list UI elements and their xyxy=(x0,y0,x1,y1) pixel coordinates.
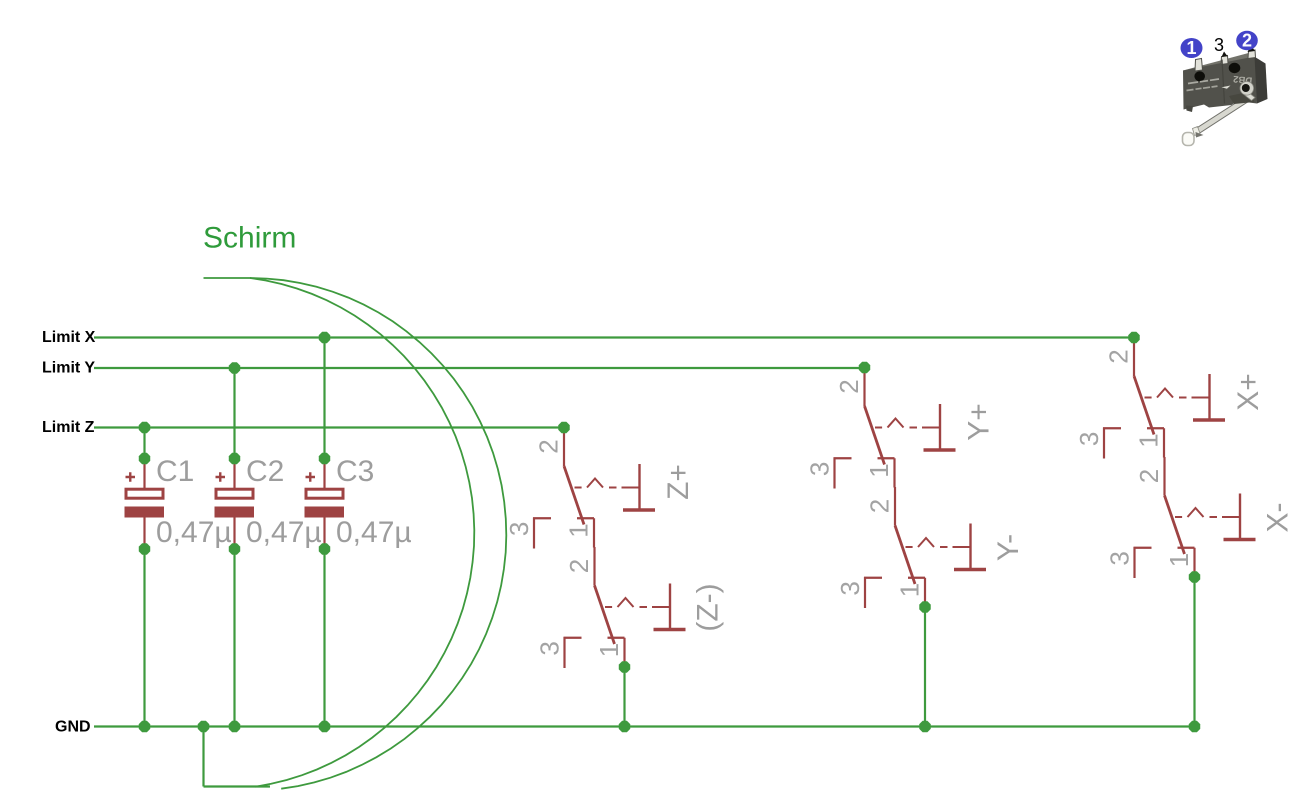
body hole left xyxy=(1194,71,1205,81)
svg-text:C2: C2 xyxy=(246,455,284,488)
wire shield stub horizontal xyxy=(204,785,271,787)
junction Limit Z / C1 xyxy=(139,422,150,433)
wire C1 column xyxy=(143,428,145,459)
junction C1 top pin xyxy=(139,453,150,464)
junction C3 bottom pin xyxy=(319,543,330,554)
svg-text:Z+: Z+ xyxy=(662,464,695,500)
junction GND / X column xyxy=(1189,721,1200,732)
limit switch X+ xyxy=(1074,338,1225,459)
wire Limit Z horizontal xyxy=(94,426,564,428)
svg-text:C3: C3 xyxy=(336,455,374,488)
lever roller xyxy=(1183,133,1195,146)
svg-text:Y+: Y+ xyxy=(963,403,996,441)
svg-text:Limit X: Limit X xyxy=(42,329,96,346)
microswitch photo xyxy=(1183,46,1268,146)
shield inner arc xyxy=(250,278,474,787)
svg-text:3: 3 xyxy=(1214,35,1224,55)
terminal 2 xyxy=(1248,50,1256,59)
junction GND / C2 xyxy=(229,721,240,732)
svg-text:(Z-): (Z-) xyxy=(692,583,725,631)
wire C3 column xyxy=(323,338,325,459)
pivot ring xyxy=(1240,82,1254,96)
roller shadow xyxy=(1196,132,1204,138)
svg-text:C1: C1 xyxy=(156,455,194,488)
fine print row 2 xyxy=(1187,86,1218,90)
limit switch X- xyxy=(1104,457,1255,578)
svg-text:0,47µ: 0,47µ xyxy=(336,516,412,549)
svg-text:1: 1 xyxy=(1186,38,1196,58)
capacitor C3 xyxy=(305,459,345,550)
junction C3 top pin xyxy=(319,453,330,464)
switch body right face xyxy=(1249,53,1268,104)
limit switch Y+ xyxy=(804,368,955,489)
wire X pair to GND xyxy=(1193,577,1195,727)
svg-text:0,47µ: 0,47µ xyxy=(246,516,322,549)
junction GND / C1 xyxy=(139,721,150,732)
junction C1 bottom pin xyxy=(139,543,150,554)
junction C2 bottom pin xyxy=(229,543,240,554)
wire Limit X horizontal xyxy=(94,336,1134,338)
junction GND / C3 xyxy=(319,721,330,732)
svg-text:Y-: Y- xyxy=(992,534,1025,561)
lever arm xyxy=(1194,93,1257,135)
terminal 3 xyxy=(1221,56,1228,65)
terminal 3 tip xyxy=(1222,52,1228,58)
junction Limit X / C3 xyxy=(319,332,330,343)
wire shield stub vertical xyxy=(202,727,204,787)
svg-text:Schirm: Schirm xyxy=(203,222,296,255)
fine print row 1 xyxy=(1188,79,1219,84)
callout 2 xyxy=(1236,31,1258,50)
body seam xyxy=(1222,60,1225,104)
capacitor C1 xyxy=(125,459,165,550)
switch body front face xyxy=(1183,57,1257,110)
wire Y pair to GND xyxy=(924,607,926,727)
pivot bracket xyxy=(1245,92,1255,101)
wire GND horizontal xyxy=(94,725,1195,727)
wire Z pair to GND xyxy=(623,667,625,727)
junction GND / Y column xyxy=(919,721,930,732)
junction Z pair bottom xyxy=(619,661,630,672)
capacitor C2 xyxy=(215,459,255,550)
wire C2 column xyxy=(233,368,235,459)
svg-text:Limit Y: Limit Y xyxy=(42,360,95,377)
svg-text:X+: X+ xyxy=(1232,373,1265,411)
switch body top face xyxy=(1183,53,1255,74)
svg-text:0,47µ: 0,47µ xyxy=(156,516,232,549)
terminal 1 xyxy=(1195,59,1203,72)
limit switch Z+ xyxy=(504,428,655,549)
limit switch Y- xyxy=(835,487,986,608)
svg-text:GND: GND xyxy=(55,719,91,736)
svg-text:X-: X- xyxy=(1262,503,1295,533)
junction X pair bottom xyxy=(1189,571,1200,582)
junction C2 top pin xyxy=(229,453,240,464)
junction Limit Y / switch Y xyxy=(859,362,870,373)
body left foot xyxy=(1186,106,1193,113)
terminal 2 tip xyxy=(1248,46,1256,53)
wire Limit Y horizontal xyxy=(94,367,865,369)
junction GND / shield stub xyxy=(198,721,209,732)
lever end piece xyxy=(1193,127,1201,136)
shield outer arc xyxy=(250,278,506,789)
wire shield tip xyxy=(204,277,252,279)
junction Y pair bottom xyxy=(919,601,930,612)
callout 3 xyxy=(1214,35,1224,55)
limit switch Z- xyxy=(534,547,685,668)
callout 1 xyxy=(1181,38,1203,58)
logo arrow xyxy=(1222,86,1231,92)
junction GND / Z column xyxy=(619,721,630,732)
DB2 marking xyxy=(1233,73,1253,86)
body shading lower xyxy=(1229,92,1255,105)
svg-text:2: 2 xyxy=(1242,31,1252,51)
junction Limit X / switch X xyxy=(1128,332,1139,343)
body hole right xyxy=(1229,63,1241,73)
svg-text:Limit Z: Limit Z xyxy=(42,419,95,436)
junction Limit Z / switch Z xyxy=(558,422,569,433)
junction Limit Y / C2 xyxy=(229,362,240,373)
